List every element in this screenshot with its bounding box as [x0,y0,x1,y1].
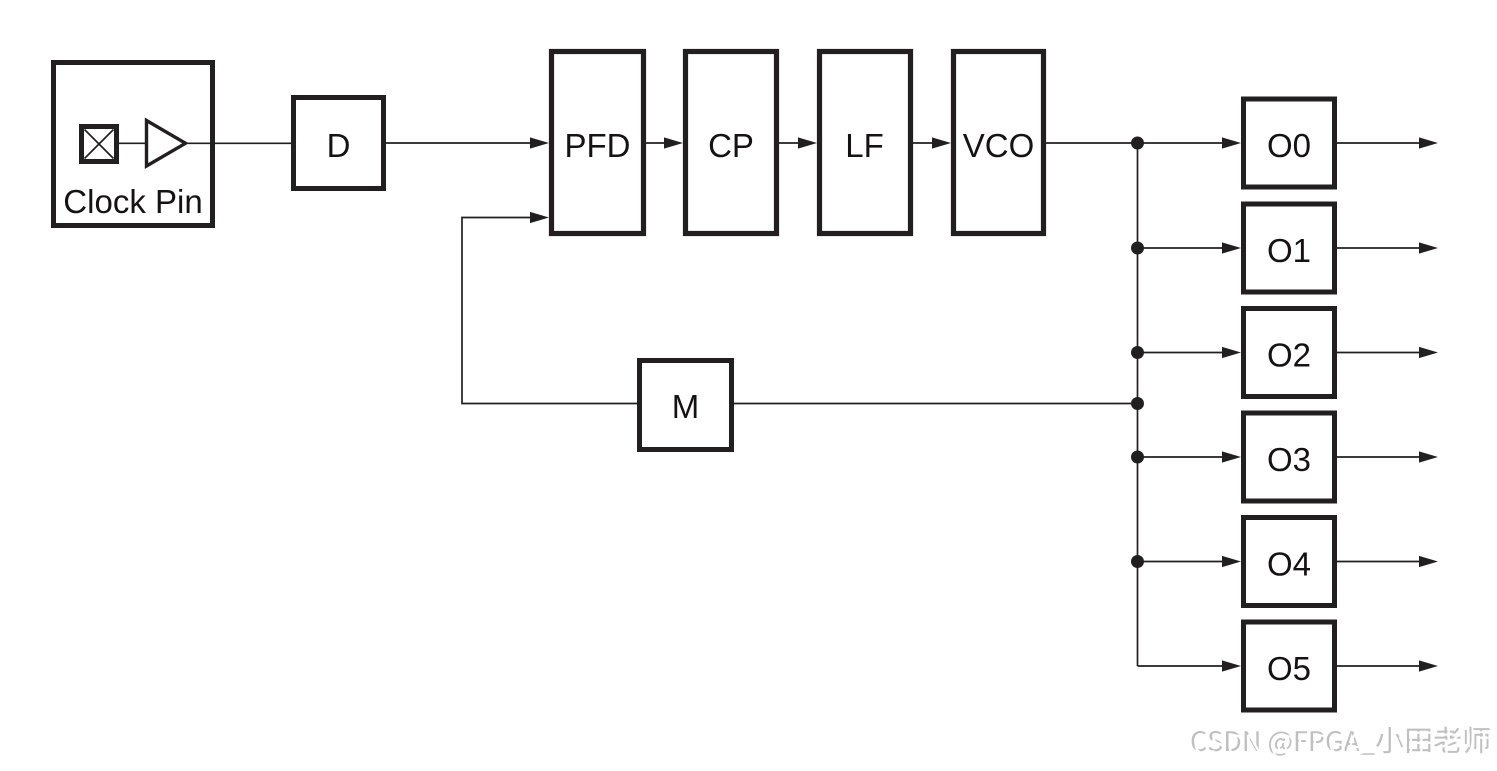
wire LF to VCO with arrow [913,142,933,144]
junction node at O4 tap [1131,555,1144,568]
O0 output wire with arrow [1337,142,1419,144]
feedback wire bus to M [734,403,1138,405]
output divider O0 box [1244,99,1335,187]
svg-text:O0: O0 [1267,127,1311,164]
clock distribution bus (vertical) [1137,143,1139,666]
wire bus to O1 with arrow [1138,247,1224,249]
svg-text:Clock Pin: Clock Pin [63,183,202,220]
junction node at O0 tap [1131,137,1144,150]
output divider O5 box [1244,622,1335,710]
VCO box [954,52,1044,234]
O5 output wire with arrow [1337,665,1419,667]
wire bus to O3 with arrow [1138,456,1224,458]
output divider O2 box [1244,309,1335,397]
wire VCO to O0 with arrow [1046,142,1223,144]
output divider O4 box [1244,518,1335,606]
feedback divider M box [640,361,732,450]
junction node at O2 tap [1131,346,1144,359]
O3 output wire with arrow [1337,456,1419,458]
svg-text:O4: O4 [1267,546,1311,583]
svg-text:CP: CP [708,127,754,164]
wire CP to LF with arrow [779,142,799,144]
watermark CSDN @FPGA_小田老师 [1192,727,1493,759]
svg-text:D: D [327,127,351,164]
junction node at O3 tap [1131,451,1144,464]
wire bus to O2 with arrow [1138,352,1224,354]
svg-text:O5: O5 [1267,650,1311,687]
clock pad (crossed square) [82,127,117,162]
junction node at O1 tap [1131,242,1144,255]
svg-text:O1: O1 [1267,232,1311,269]
wire pad to buffer [119,142,146,144]
junction node at feedback tap [1131,397,1144,410]
wire bus to O4 with arrow [1138,561,1224,563]
svg-text:M: M [672,388,700,425]
svg-text:O2: O2 [1267,337,1311,374]
output divider O1 box [1244,204,1335,292]
svg-text:PFD: PFD [565,127,631,164]
LF box [820,52,911,234]
PFD box [552,52,644,234]
feedback wire M to PFD (left + up + arrow) [462,218,637,404]
wire D to PFD with arrow [386,142,531,144]
svg-text:LF: LF [845,127,884,164]
svg-text:VCO: VCO [963,127,1035,164]
input buffer triangle [147,121,186,167]
svg-text:O3: O3 [1267,441,1311,478]
divider D box [294,98,384,189]
O1 output wire with arrow [1337,247,1419,249]
O4 output wire with arrow [1337,561,1419,563]
Clock Pin block outer box [54,63,213,226]
O2 output wire with arrow [1337,352,1419,354]
output divider O3 box [1244,413,1335,501]
wire PFD to CP with arrow [646,142,665,144]
CP box [686,52,777,234]
wire buffer to D [188,142,295,144]
wire bus elbow to O5 with arrow [1138,665,1224,667]
